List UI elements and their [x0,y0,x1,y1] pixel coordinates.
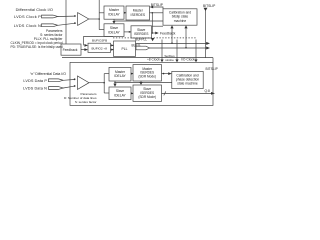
svg-text:IDELAY: IDELAY [114,74,126,78]
svg-text:PLL: PLL [121,47,127,51]
node parameters text (bottom) [64,92,97,104]
wire junction down [151,13,153,33]
node BUFPLL label [135,38,147,42]
wire module boundary left (top section) [65,0,67,44]
wire ioclk net [136,42,207,44]
wire horizontal net A [62,57,213,59]
svg-text:BUFIO2 ÷8: BUFIO2 ÷8 [91,46,107,50]
pin BUFG flag [136,46,150,50]
node LVDS Clock P label [14,14,41,19]
box Slave ISERDES (bottom) [133,85,162,101]
wire Master ISERDES output [150,12,164,14]
wire divided clock net [150,47,207,49]
wire Master ISERDES output to state machine [162,73,169,75]
svg-text:IDELAY: IDELAY [114,94,126,98]
svg-text:IDELAY: IDELAY [108,30,120,34]
wire into Slave IDELAY [99,29,104,31]
op-amp input buffer (data) [78,76,90,89]
pin LVDS Clock N [42,24,58,27]
node BITSLIP label left [151,3,164,7]
wire cascade calibration line (top) [113,19,115,21]
svg-text:ISERDES: ISERDES [134,32,149,36]
svg-text:strobe: strobe [165,58,174,62]
svg-text:(SDR Mode): (SDR Mode) [138,75,156,79]
node junction [152,12,154,14]
box Slave ISERDES (top) [131,26,152,38]
box PLL [114,41,136,56]
svg-text:BITSLIP: BITSLIP [206,67,219,71]
box receiver module boundary (bottom) [70,62,213,105]
wire cascade calibration line (bottom) [114,81,116,84]
svg-text:Slave: Slave [116,89,124,93]
wire clock N into buffer [58,23,75,25]
wire buffer output to junction [89,18,99,20]
svg-text:BUFIO2FB: BUFIO2FB [92,39,107,43]
pin LVDS Data N [49,87,64,90]
svg-text:IDELAY: IDELAY [108,13,120,17]
box BUFIO2 divider [88,43,111,52]
svg-text:Q:8: Q:8 [205,89,210,93]
wire serdes strobe drop [176,40,178,60]
node BITSLIP label (bottom) [206,67,219,71]
node LVDS Clock N label [14,23,41,28]
wire Slave IDELAY to Slave ISERDES [124,31,131,33]
wire div8 clock drop [161,40,163,60]
svg-text:ISERDES: ISERDES [131,13,146,17]
node BUFG label [132,43,141,47]
wire bitslip vertical net [204,8,208,11]
box Master ISERDES (top) [126,6,150,20]
node Feedback input box [61,44,81,55]
svg-text:machine: machine [174,19,187,23]
node Differential Clock I/O header [16,7,53,12]
wire Slave ISERDES output to Feedback [152,32,156,34]
node io clock label [181,57,195,61]
svg-text:S: serdes factor: S: serdes factor [75,100,97,104]
node serdes strobe label [164,54,175,62]
svg-text:I/O Clock: I/O Clock [181,57,195,61]
svg-text:Feedback: Feedback [63,48,78,52]
wire clock P into buffer [58,15,75,17]
svg-text:(SDR Mode): (SDR Mode) [138,95,156,99]
node BITSLIP label right [203,4,216,8]
box Slave IDELAY (top) [104,24,124,37]
wire dashed clock region top edge [113,37,196,39]
svg-text:state machine: state machine [177,82,198,86]
box Calibration and bitslip state machine [163,9,197,25]
wire Slave ISERDES data output [162,92,212,94]
wire BUFIO2 to PLL lower [111,49,114,51]
box Master ISERDES (bottom) [133,65,162,81]
wire slave serdes to state machine [152,25,163,27]
svg-text:PD: TRUE/FALSE: Is the bitslip: PD: TRUE/FALSE: Is the bitslip used [10,45,62,49]
wire buffer output to junction (bottom) [89,82,104,84]
box Calibration and phase detection state machine [172,71,203,88]
svg-text:BUFG: BUFG [132,43,141,47]
wire io clock drop [195,40,197,60]
node div8 clock label [147,57,160,61]
wire feedback corner into BUFIO2 [83,36,85,45]
op-amp input buffer (clock) [78,13,89,26]
box Master IDELAY (bottom) [109,67,131,81]
wire state machine input 2 [184,25,187,28]
node bus slash [164,91,166,95]
svg-text:LVDS Clock P: LVDS Clock P [14,14,41,19]
node LVDS Data P label [23,79,47,83]
node Q output label [205,89,210,93]
svg-text:Master: Master [109,8,120,12]
node junction clock [98,18,100,20]
node Differential Data I/O header [30,72,66,76]
node junction [152,32,154,34]
svg-text:Slave: Slave [110,26,118,30]
wire BUFIO2 to PLL upper [111,44,114,46]
svg-text:LVDS Data P: LVDS Data P [23,79,47,83]
wire into Master IDELAY [99,12,104,14]
box Master IDELAY (top) [104,6,124,19]
pin LVDS Data P [49,79,64,82]
node LVDS Data N label [23,86,47,90]
node BUFIO2FB label [92,39,107,43]
wire Master IDELAY to Master ISERDES [124,12,126,14]
wire feedback into BUFIO2 [81,49,85,51]
node chip boundary right edge [212,58,214,63]
wire vertical clock net [98,0,100,30]
svg-text:Master: Master [133,8,144,12]
svg-text:Feedback: Feedback [160,31,176,35]
svg-text:LVDS Data N: LVDS Data N [23,86,47,90]
wire Master IDELAY to Master ISERDES (bottom) [131,73,133,75]
svg-text:Slave: Slave [137,28,145,32]
svg-text:BUFPLL: BUFPLL [135,38,147,42]
svg-text:BITSLIP: BITSLIP [203,4,216,8]
node parameters text (top) [10,29,63,49]
box Slave IDELAY (bottom) [109,87,131,100]
wire state machine input 1 [170,25,173,28]
svg-text:“n” Differential Data I/O: “n” Differential Data I/O [30,72,66,76]
svg-text:Differential Clock I/O: Differential Clock I/O [16,7,53,12]
wire bitslip into Master ISERDES [150,6,154,9]
wire Slave IDELAY to Slave ISERDES (bottom) [131,92,133,94]
svg-text:Master: Master [115,70,126,74]
pin LVDS Clock P [42,15,58,18]
svg-text:÷8 Clock: ÷8 Clock [147,57,160,61]
svg-text:LVDS Clock N: LVDS Clock N [14,23,41,28]
